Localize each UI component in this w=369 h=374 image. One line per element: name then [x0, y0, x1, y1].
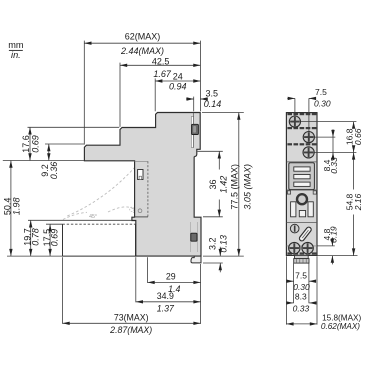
svg-text:73(MAX): 73(MAX)	[114, 313, 149, 323]
svg-text:7.5: 7.5	[295, 271, 307, 281]
svg-text:2.87(MAX): 2.87(MAX)	[109, 325, 152, 335]
svg-text:2.16: 2.16	[353, 193, 363, 211]
svg-text:0.62(MAX): 0.62(MAX)	[321, 322, 360, 331]
svg-text:mm: mm	[8, 40, 24, 50]
svg-text:45°: 45°	[89, 214, 97, 220]
svg-text:2.44(MAX): 2.44(MAX)	[120, 46, 164, 56]
svg-text:3.5: 3.5	[206, 89, 219, 99]
svg-text:24: 24	[173, 72, 183, 82]
svg-text:0.33: 0.33	[329, 157, 339, 174]
svg-text:42.5: 42.5	[152, 56, 170, 66]
svg-text:8.3: 8.3	[295, 292, 307, 302]
svg-text:0.94: 0.94	[169, 82, 187, 92]
svg-text:0.30: 0.30	[293, 282, 310, 292]
svg-text:36: 36	[208, 179, 218, 189]
svg-text:1.98: 1.98	[11, 198, 21, 216]
svg-text:0.66: 0.66	[353, 128, 363, 145]
svg-text:1.42: 1.42	[218, 176, 228, 194]
svg-text:1.67: 1.67	[153, 69, 172, 79]
svg-text:29: 29	[166, 272, 176, 282]
svg-text:0.13: 0.13	[219, 235, 229, 253]
svg-text:15.8(MAX): 15.8(MAX)	[322, 313, 361, 322]
svg-text:77.5 (MAX): 77.5 (MAX)	[230, 164, 240, 210]
svg-text:7.5: 7.5	[315, 87, 327, 97]
svg-text:0.69: 0.69	[49, 229, 59, 247]
svg-text:1.37: 1.37	[157, 304, 175, 314]
svg-text:0.14: 0.14	[204, 99, 222, 109]
svg-text:3.2: 3.2	[207, 238, 217, 251]
svg-text:62(MAX): 62(MAX)	[125, 31, 161, 41]
svg-text:0.33: 0.33	[293, 304, 310, 314]
svg-text:34.9: 34.9	[157, 291, 174, 301]
svg-text:0.69: 0.69	[30, 135, 40, 153]
svg-text:0.30: 0.30	[314, 98, 331, 108]
svg-text:0.19: 0.19	[329, 226, 339, 243]
svg-text:3.05 (MAX): 3.05 (MAX)	[242, 164, 252, 210]
svg-text:0.78: 0.78	[31, 228, 41, 246]
svg-text:in.: in.	[11, 50, 21, 60]
svg-text:0.36: 0.36	[49, 162, 59, 180]
